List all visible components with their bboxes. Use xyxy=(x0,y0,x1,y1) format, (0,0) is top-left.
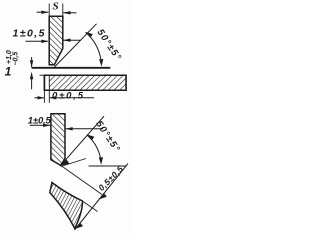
gap dimension extension rail from plate root xyxy=(61,165,102,194)
S dimension right arrow xyxy=(63,12,76,14)
svg-text:S: S xyxy=(53,1,59,13)
flange top extension segment xyxy=(40,74,45,76)
svg-text:1±0,5: 1±0,5 xyxy=(28,115,52,126)
bevel angle horizontal arrow to plate right edge xyxy=(63,39,81,41)
extension line at plate left edge through flange xyxy=(48,75,50,103)
bevel angle horizontal arrow to bottom plate right edge xyxy=(66,128,103,130)
top plate (vertical sheet with bevel) xyxy=(49,16,63,65)
S dimension left arrow xyxy=(37,11,49,13)
label 1 +1,0/-0,5 (digit upright, tolerances as rotated columns) xyxy=(5,50,20,78)
angle dimension arc (top figure) xyxy=(86,32,102,65)
bevel angle ray 50 deg (bottom figure) with arrowhead at root xyxy=(61,116,104,165)
angle baseline (bottom figure) xyxy=(89,165,127,167)
svg-text:50°±5°: 50°±5° xyxy=(94,27,123,63)
member edge extension stub xyxy=(83,202,98,212)
0±0,5 dimension arrows xyxy=(35,97,45,99)
flange (horizontal plate) xyxy=(44,75,126,90)
angle dimension arc (bottom figure) xyxy=(87,135,101,163)
leader arrow of 1±0,5 to bottom plate left edge xyxy=(30,124,51,126)
svg-text:0,5±0,5: 0,5±0,5 xyxy=(96,164,125,193)
extension line from flange left end face xyxy=(43,90,45,103)
svg-text:1±0,5: 1±0,5 xyxy=(13,28,45,40)
svg-text:1: 1 xyxy=(5,65,12,79)
bottom plate (vertical sheet with bevel, lower figure) xyxy=(51,114,65,166)
gap dimension line 0,5±0,5 along member end face xyxy=(75,164,129,231)
leader arrow of 1±0,5 to plate left edge xyxy=(26,40,48,42)
bevel angle ray 50 deg (top figure) xyxy=(54,24,97,68)
angle baseline (top figure) xyxy=(32,67,111,69)
svg-text:−0,5: −0,5 xyxy=(12,52,19,66)
left vertical dimension line with arrows (1 +1,0/-0,5) xyxy=(31,57,33,67)
curved member (inclined sheet, long end face at lower right) xyxy=(50,183,83,229)
S dimension extension lines xyxy=(48,4,50,16)
svg-text:0±0,5: 0±0,5 xyxy=(52,90,84,101)
member surface extension line (bottom figure) xyxy=(61,159,86,167)
